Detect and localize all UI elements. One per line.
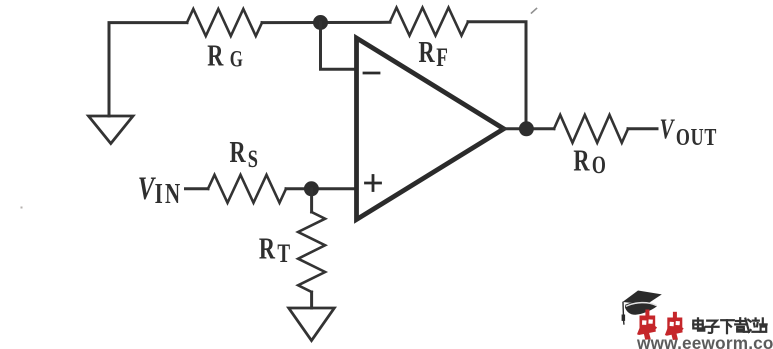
tiny speck artifact left bbox=[21, 207, 23, 209]
ground symbol G2 bbox=[289, 308, 335, 341]
wire RG to node A bbox=[262, 21, 390, 24]
svg-text:T: T bbox=[277, 238, 290, 268]
watermark red character chong 2 bbox=[665, 312, 684, 340]
label RF bbox=[419, 34, 448, 72]
svg-text:G: G bbox=[230, 47, 243, 72]
svg-text:O: O bbox=[592, 151, 606, 179]
svg-text:OUT: OUT bbox=[676, 124, 717, 151]
watermark cap crown bbox=[625, 302, 657, 315]
node B junction dot bbox=[304, 181, 319, 196]
node A junction dot bbox=[313, 15, 328, 30]
watermark text xia bbox=[721, 320, 734, 333]
label VOUT bbox=[660, 115, 718, 151]
watermark text zi bbox=[706, 321, 719, 333]
small artifact mark bbox=[532, 9, 537, 14]
label RS bbox=[230, 134, 258, 173]
resistor RS bbox=[208, 175, 286, 203]
wire node A to inverting input bbox=[321, 23, 357, 70]
label RG bbox=[207, 38, 243, 72]
svg-text:www.eeworm.com: www.eeworm.com bbox=[636, 333, 773, 349]
watermark text zhan bbox=[752, 318, 766, 331]
watermark text zai bbox=[735, 318, 750, 332]
watermark cap white stripe bbox=[627, 303, 657, 306]
resistor RO bbox=[554, 115, 628, 143]
label VIN bbox=[138, 171, 183, 210]
resistor RG bbox=[187, 9, 262, 36]
watermark graduation cap board bbox=[623, 291, 662, 305]
wire RF to right corner and down to output node bbox=[468, 22, 526, 129]
wire RO to VOUT bbox=[628, 127, 657, 130]
wire VIN to RS bbox=[186, 187, 209, 190]
wire node B down to RT bbox=[310, 189, 313, 212]
svg-text:S: S bbox=[248, 144, 258, 173]
resistor RF bbox=[390, 8, 468, 36]
op-amp U1 bbox=[357, 38, 504, 220]
svg-text:V: V bbox=[138, 171, 157, 207]
wire RS to noninverting input bbox=[286, 187, 356, 190]
svg-text:R: R bbox=[259, 231, 276, 265]
resistor RT bbox=[298, 212, 325, 292]
svg-text:R: R bbox=[419, 34, 436, 68]
label RT bbox=[259, 231, 291, 268]
op-amp plus sign bbox=[366, 176, 381, 191]
label RO bbox=[573, 143, 605, 179]
wire op-amp output to RO bbox=[504, 127, 554, 130]
wire RT to ground bbox=[310, 292, 313, 308]
ground symbol G1 bbox=[89, 116, 134, 144]
svg-text:V: V bbox=[660, 115, 676, 146]
watermark text dian bbox=[693, 318, 704, 330]
op-amp minus sign bbox=[364, 72, 379, 75]
svg-text:R: R bbox=[230, 134, 247, 168]
watermark red character chong 1 bbox=[637, 310, 657, 340]
svg-text:IN: IN bbox=[155, 179, 183, 210]
svg-text:R: R bbox=[573, 143, 590, 177]
watermark tassel bbox=[622, 302, 626, 324]
svg-text:F: F bbox=[436, 42, 448, 72]
wire ground-1 vertical bbox=[109, 23, 187, 116]
svg-text:R: R bbox=[207, 38, 224, 72]
output node junction dot bbox=[519, 121, 534, 136]
